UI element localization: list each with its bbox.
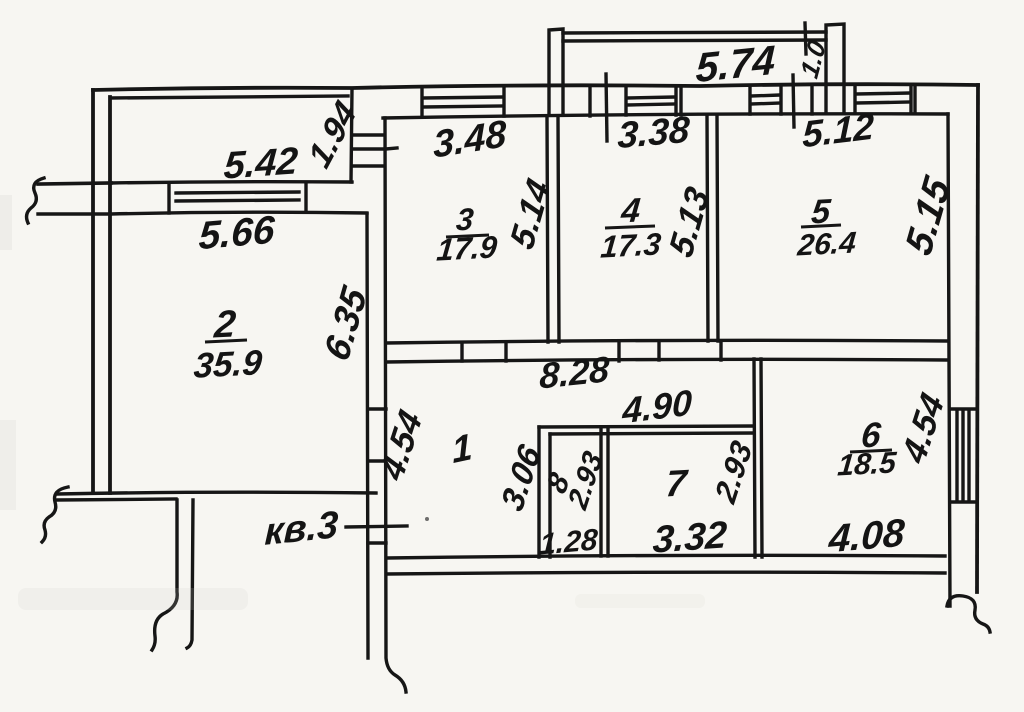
svg-text:5.12: 5.12 xyxy=(802,104,875,155)
balcony 5.74 top double line xyxy=(563,32,826,41)
dimension tick x793 xyxy=(793,75,794,127)
wall corridor/room6 xyxy=(754,359,762,557)
svg-text:1: 1 xyxy=(451,425,474,471)
svg-text:кв.3: кв.3 xyxy=(264,503,339,554)
kv3 shaft left line = room2 right wall (above) ; main building left wall xyxy=(385,118,406,692)
window B inner lines xyxy=(628,97,675,105)
top wall inner line xyxy=(383,114,948,118)
room 2 bottom-left curly xyxy=(42,487,68,542)
window A (room3) caps xyxy=(422,88,504,117)
right wall bottom curl xyxy=(947,596,990,632)
band vertical x590 xyxy=(588,87,591,116)
window W1 (5.66 wall) left cap xyxy=(167,185,170,213)
balcony 5.42 inner top line xyxy=(111,96,348,98)
band vertical x812 xyxy=(810,86,813,114)
bottom wall top line xyxy=(387,555,945,558)
divider rooms 8/7 xyxy=(601,428,608,556)
middle wall bottom line xyxy=(386,359,947,362)
svg-text:4: 4 xyxy=(619,191,642,230)
underline UL6 xyxy=(850,450,892,452)
shaft tick 3 xyxy=(368,541,386,544)
underline UL4 xyxy=(605,226,655,228)
middle band tick x659 xyxy=(657,342,660,360)
svg-text:17.3: 17.3 xyxy=(599,226,662,264)
left wall inner line xyxy=(108,97,112,493)
svg-text:5.74: 5.74 xyxy=(695,37,776,92)
short tick right of wall xyxy=(386,148,397,149)
right wall window E caps xyxy=(950,409,977,502)
middle band tick x506 xyxy=(504,343,507,361)
svg-text:4.08: 4.08 xyxy=(827,512,906,562)
small dot artifact xyxy=(425,517,429,521)
balcony 5.74 left pillar xyxy=(549,29,563,115)
steps between balcony and main wall xyxy=(352,135,383,166)
left wing band bottom xyxy=(38,212,110,215)
window C inner lines xyxy=(752,95,780,104)
wall rooms 4/5 xyxy=(707,116,718,341)
kv3 pointer line xyxy=(346,526,407,527)
svg-text:26.4: 26.4 xyxy=(795,226,857,262)
window E hatch lines xyxy=(957,410,969,501)
svg-text:8.28: 8.28 xyxy=(539,348,611,397)
left band curly end xyxy=(27,178,44,223)
inner box top lines xyxy=(539,426,754,434)
outer top wall line (full width) xyxy=(93,84,978,90)
svg-text:5.66: 5.66 xyxy=(198,209,276,259)
right wall outer line xyxy=(977,85,978,592)
svg-text:18.5: 18.5 xyxy=(836,446,898,482)
window W1 inner lines xyxy=(176,192,299,201)
window W1 right cap xyxy=(304,184,307,212)
window D (room5) caps xyxy=(855,85,911,113)
balcony 5.74 right pillar xyxy=(826,24,844,113)
room 2 right wall xyxy=(367,214,368,658)
room 2 bottom second line xyxy=(57,499,176,500)
svg-text:17.9: 17.9 xyxy=(435,229,499,267)
room 2 bottom wall xyxy=(57,492,376,494)
window B (room4) caps xyxy=(626,87,676,115)
inner box left lines xyxy=(539,427,550,557)
room 2 top wall xyxy=(111,212,367,214)
middle band tick x619 xyxy=(617,342,620,361)
svg-text:1.28: 1.28 xyxy=(539,523,599,561)
svg-text:3.38: 3.38 xyxy=(617,108,691,156)
underline UL5 xyxy=(801,225,841,227)
shaft tick 1 xyxy=(368,407,386,410)
middle band tick x721 xyxy=(719,342,722,360)
balcony 5.42 bottom line xyxy=(111,182,352,183)
wall rooms 3/4 xyxy=(547,118,559,342)
dimension tick x606 xyxy=(606,74,607,141)
faint scan smudges xyxy=(0,195,705,610)
shaft tick 2 xyxy=(368,459,386,462)
window D inner lines xyxy=(857,93,910,103)
svg-text:5.42: 5.42 xyxy=(222,139,299,187)
appendix wall right line xyxy=(187,500,193,648)
left wing band top (to left of wall) xyxy=(38,183,111,184)
svg-text:35.9: 35.9 xyxy=(192,343,264,386)
underline UL2 xyxy=(205,340,247,342)
balcony 5.74 tick x805 xyxy=(805,23,806,54)
bottom wall lower line xyxy=(387,572,945,574)
window A inner lines xyxy=(424,97,503,107)
middle wall top line xyxy=(386,340,947,343)
window C caps xyxy=(750,86,781,114)
svg-text:3.32: 3.32 xyxy=(651,513,728,561)
appendix wall left line with hook xyxy=(152,500,177,650)
middle band tick x462 xyxy=(460,343,463,361)
underline UL3 xyxy=(446,235,489,237)
band vertical x915 xyxy=(913,85,916,113)
band vertical x681 xyxy=(679,87,682,115)
balcony 5.42 right edge xyxy=(351,89,352,182)
left wall outer line xyxy=(91,90,95,493)
svg-text:4.90: 4.90 xyxy=(621,382,692,432)
right wall inner line xyxy=(948,114,950,606)
